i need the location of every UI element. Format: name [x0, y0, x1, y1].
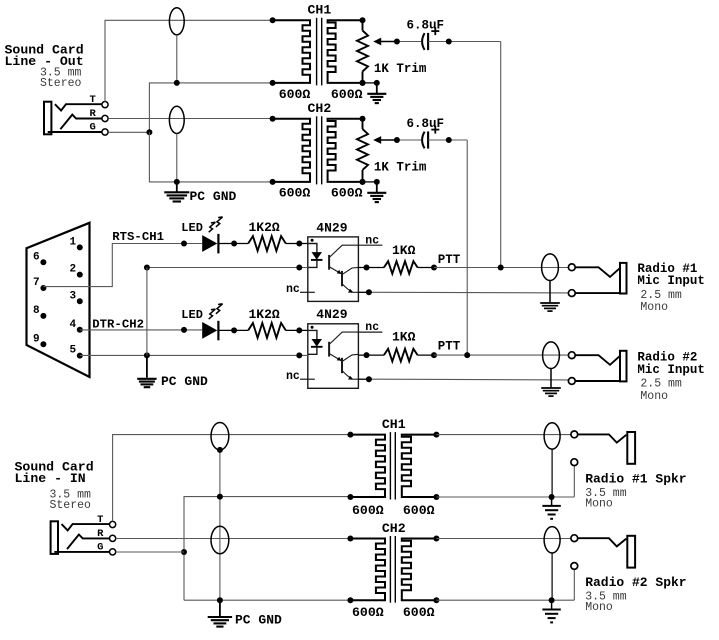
wire: R2 to opto U2 anode — [286, 327, 308, 333]
svg-text:Mono: Mono — [585, 601, 613, 614]
label: Sound Card Line - Out — [5, 43, 84, 91]
wire: ring to CH2 primary top — [108, 118, 272, 120]
wire: CH2-in secondary bottom to radio2 spkr sleeve — [436, 570, 574, 603]
label CH1 (in) — [382, 417, 406, 432]
wire: R4 to PTT2 node and radio 2 tip — [418, 352, 570, 358]
node: TCH2in terminals — [347, 536, 439, 604]
opto U2 base stub (nc) — [300, 378, 315, 380]
label CH2 (in) — [382, 521, 406, 536]
svg-text:CH1: CH1 — [308, 3, 332, 18]
svg-text:LED: LED — [181, 308, 203, 322]
DB9 pin 6 — [33, 251, 46, 265]
DB9 pin 1 — [70, 237, 83, 251]
wire: C2 to PTT2 drop — [428, 137, 467, 355]
opto-coupler U2 4N29 package outline — [308, 324, 359, 389]
wire: D2 to R2 — [218, 327, 248, 333]
svg-text:6: 6 — [33, 251, 40, 263]
label 600ohm CH2-in left — [352, 605, 384, 620]
wire: return bus down to CH2 primary bottom — [149, 132, 272, 185]
resistor R4 1K — [384, 349, 418, 362]
svg-text:PTT: PTT — [438, 253, 461, 267]
jack sleeve contact (G) — [54, 551, 109, 553]
wire: CH2 cable shield drain — [176, 134, 178, 182]
label PC GND (middle) — [161, 374, 208, 389]
opto U1 photo-darlington transistor — [329, 245, 358, 293]
svg-text:4N29: 4N29 — [316, 307, 347, 322]
svg-text:6.8uF: 6.8uF — [407, 18, 445, 32]
capacitor C2 6.8uF — [422, 126, 439, 149]
svg-text:1: 1 — [70, 237, 77, 249]
transformer TCH1out secondary winding 600 ohm — [328, 20, 363, 83]
svg-text:7: 7 — [33, 277, 40, 289]
wire: U1 emitter out to R3 — [358, 265, 384, 271]
svg-text:8: 8 — [33, 305, 40, 317]
opto U2 photo-darlington transistor — [329, 332, 358, 380]
label 6.8uF C1 — [407, 18, 445, 32]
cable ellipse CH2 in — [211, 526, 229, 553]
svg-text:Radio #2 Spkr: Radio #2 Spkr — [585, 575, 686, 590]
labels T R G — [97, 514, 104, 553]
svg-text:600Ω: 600Ω — [331, 87, 363, 102]
cable ellipse CH1 in — [211, 423, 229, 450]
ground: PC GND serial — [137, 355, 156, 387]
wire: sleeve G to return bus — [116, 551, 184, 553]
label 600ohm CH2-in right — [403, 605, 435, 620]
svg-text:PTT: PTT — [438, 340, 461, 354]
wire: pin5 and opto U2 cathode to PC GND bus — [80, 352, 308, 358]
resistor R2 1K2 — [248, 323, 286, 338]
3.5mm stereo jack body (Line-Out) — [44, 102, 51, 135]
transformer TCH2in core — [390, 536, 395, 603]
cable ellipse radio1 spkr — [544, 423, 560, 449]
svg-text:1K2Ω: 1K2Ω — [249, 307, 280, 322]
svg-text:9: 9 — [33, 333, 40, 345]
label 1K Trim CH2 — [374, 160, 427, 174]
opto U1 internal LED — [308, 244, 323, 268]
wire: DTR pin4 to LED D2 — [80, 327, 202, 333]
svg-text:T: T — [97, 514, 103, 526]
wire: cable shield drain to return bus — [176, 35, 178, 83]
jack terminals T R G — [102, 102, 108, 136]
svg-text:Line - IN: Line - IN — [15, 471, 86, 486]
3.5mm mono plug/jack for Radio #2 speaker — [571, 535, 635, 570]
svg-text:4: 4 — [70, 319, 77, 331]
label nc U1 collector — [358, 234, 382, 247]
wire: tip to CH1 primary top — [105, 20, 273, 101]
wire: U1 bottom emitter to radio1 sleeve — [358, 289, 569, 295]
label PC GND (bottom) — [235, 613, 282, 628]
svg-text:Mono: Mono — [585, 497, 613, 510]
label Radio #2 Mic Input — [637, 351, 705, 403]
label PTT (1) — [438, 253, 461, 267]
node: TCH1in terminals — [347, 432, 439, 500]
svg-text:6.8uF: 6.8uF — [407, 117, 445, 131]
label Radio #1 Spkr — [585, 471, 686, 510]
label nc U2 collector — [358, 321, 382, 334]
svg-text:2.5 mm: 2.5 mm — [640, 289, 682, 302]
label 1Kohm R4 — [392, 330, 416, 345]
wire: shield bus vertical — [217, 447, 223, 600]
label 600ohm CH1-in right — [403, 503, 435, 518]
wire: PC GND bus vertical (serial) — [146, 268, 148, 356]
DB9 pin 8 — [33, 305, 46, 319]
LED D1 — [202, 217, 222, 254]
svg-text:1KΩ: 1KΩ — [392, 330, 416, 345]
svg-text:G: G — [90, 122, 96, 134]
wire: U2 emitter out to R4 — [358, 352, 384, 358]
jack tip contact (T) — [62, 524, 110, 530]
transformer TCH2out primary winding 600 ohm — [273, 119, 310, 182]
label Radio #1 Mic Input — [637, 262, 705, 314]
cable ellipse CH1 out — [169, 8, 184, 35]
jack ring contact (R) — [60, 115, 102, 130]
transformer TCH2out secondary winding 600 ohm — [328, 119, 363, 182]
DB9 serial connector J1 — [27, 223, 90, 377]
transformer TCH2out core — [317, 116, 322, 184]
transformer TCH1in core — [390, 432, 395, 499]
svg-text:R: R — [97, 528, 104, 540]
node: TCH2out terminals — [270, 116, 366, 185]
svg-text:600Ω: 600Ω — [403, 605, 435, 620]
ground: spkr2 shield — [542, 600, 560, 622]
svg-text:1KΩ: 1KΩ — [392, 243, 416, 258]
wire: sleeve G to return bus — [108, 129, 152, 135]
ground: CH1 trim bottom — [360, 80, 387, 103]
label 4N29 U2 — [316, 307, 347, 322]
wire: R3 to PTT1 node and radio 1 tip — [418, 265, 570, 271]
2.5mm mono plug/jack for Radio #2 mic — [568, 351, 626, 385]
resistor R1 1K2 — [248, 236, 286, 251]
label 1Kohm R3 — [392, 243, 416, 258]
svg-text:nc: nc — [286, 283, 300, 296]
svg-text:PC GND: PC GND — [161, 374, 208, 389]
LED D2 — [202, 304, 222, 341]
svg-text:R: R — [90, 108, 97, 120]
label PC GND (top) — [190, 189, 237, 204]
svg-text:2.5 mm: 2.5 mm — [640, 378, 682, 391]
label LED D2 — [181, 308, 203, 322]
labels T R G — [90, 94, 97, 133]
wire: CH1-in secondary top to radio1 spkr tip — [436, 434, 570, 436]
svg-text:4N29: 4N29 — [316, 220, 347, 235]
svg-text:RTS-CH1: RTS-CH1 — [112, 230, 164, 244]
wire: return bus to CH1 primary bottom — [149, 80, 272, 132]
opto U1 base stub (nc) — [300, 291, 315, 293]
wire: spkr2 cable shield — [551, 553, 553, 600]
label 1K2ohm R1 — [249, 220, 280, 235]
svg-text:CH2: CH2 — [382, 521, 406, 536]
transformer TCH1out core — [317, 18, 322, 86]
cable ellipse CH2 out — [169, 106, 184, 133]
svg-text:LED: LED — [181, 221, 203, 235]
wire wiper to cap CH2 — [394, 137, 421, 143]
svg-text:Stereo: Stereo — [40, 77, 82, 90]
label CH1 — [308, 3, 332, 18]
svg-text:2: 2 — [70, 264, 77, 276]
ground: CH2 trim bottom — [360, 179, 387, 202]
capacitor C1 6.8uF — [422, 27, 439, 50]
cable ellipse radio2 spkr — [544, 527, 560, 553]
wire: U2 bottom emitter to radio2 sleeve — [358, 376, 569, 382]
svg-text:5: 5 — [70, 345, 77, 357]
wire wiper to cap CH1 — [394, 39, 421, 45]
label DTR-CH2 — [92, 318, 144, 332]
3.5mm mono plug/jack for Radio #1 speaker — [571, 431, 635, 466]
cable ellipse radio1 mic — [542, 254, 559, 281]
ground: radio2 mic cable shield — [541, 369, 561, 397]
svg-text:CH1: CH1 — [382, 417, 406, 432]
svg-text:PC GND: PC GND — [190, 189, 237, 204]
svg-text:1K Trim: 1K Trim — [374, 62, 427, 76]
svg-text:3: 3 — [70, 290, 77, 302]
wire: R1 to opto U1 anode — [286, 241, 308, 247]
ground: spkr1 shield — [542, 497, 560, 519]
wire: tip to CH1-in primary top — [113, 435, 351, 522]
label: Sound Card Line - IN — [15, 460, 94, 513]
wire: RTS pin7 to LED D1 — [43, 241, 202, 287]
cable ellipse radio2 mic — [543, 342, 560, 369]
transformer TCH2in secondary winding 600 ohm — [402, 539, 437, 601]
jack terminals T R G — [110, 521, 116, 555]
svg-text:Mic Input: Mic Input — [637, 274, 705, 288]
label 600ohm primary CH2 — [279, 186, 311, 201]
DB9 pin 3 — [70, 290, 83, 304]
label RTS-CH1 — [112, 230, 164, 244]
trimmer R: 1K Trim CH2 — [357, 119, 397, 182]
wire: CH1-in secondary bottom to radio1 spkr sleeve — [436, 466, 574, 500]
jack sleeve contact (G) — [48, 131, 102, 133]
DB9 pin 4 — [70, 319, 83, 333]
transformer TCH2in primary winding 600 ohm — [350, 539, 385, 601]
svg-text:600Ω: 600Ω — [331, 186, 363, 201]
svg-text:CH2: CH2 — [308, 101, 332, 116]
svg-text:600Ω: 600Ω — [352, 605, 384, 620]
svg-text:Radio #1 Spkr: Radio #1 Spkr — [585, 471, 686, 486]
svg-text:600Ω: 600Ω — [279, 186, 311, 201]
DB9 pin 5 — [70, 345, 83, 359]
svg-text:1K Trim: 1K Trim — [374, 160, 427, 174]
wire: opto U1 cathode to PC GND bus — [144, 265, 308, 271]
wire: return to CH1-in bottom — [181, 494, 350, 601]
wire: bottom return to CH2-in bottom — [184, 597, 350, 603]
label PTT (2) — [438, 340, 461, 354]
svg-text:Stereo: Stereo — [50, 499, 92, 512]
label 600ohm CH1-in left — [352, 503, 384, 518]
transformer TCH1out primary winding 600 ohm — [273, 20, 310, 83]
label 1K Trim — [374, 62, 427, 76]
ground: PC GND line-in — [208, 600, 232, 626]
wire: C1 to PTT1 drop — [428, 39, 501, 268]
resistor R3 1K — [384, 261, 418, 274]
node: TCH1out terminals — [270, 17, 366, 86]
svg-text:Mono: Mono — [640, 301, 668, 314]
3.5mm stereo jack body (Line-In) — [51, 521, 58, 554]
svg-text:600Ω: 600Ω — [279, 87, 311, 102]
wire: D1 to R1 — [218, 241, 248, 247]
label LED D1 — [181, 221, 203, 235]
opto-coupler U1 4N29 package outline — [308, 237, 359, 302]
label 600ohm secondary CH2 — [331, 186, 363, 201]
jack tip contact (T) — [55, 104, 102, 110]
DB9 pin 2 — [70, 264, 83, 278]
label 4N29 U1 — [316, 220, 347, 235]
svg-text:G: G — [97, 541, 103, 553]
ground: radio1 mic cable shield — [540, 281, 560, 312]
svg-text:Mono: Mono — [640, 390, 668, 403]
opto U2 internal LED — [308, 330, 323, 354]
transformer TCH1in secondary winding 600 ohm — [402, 435, 437, 497]
label 6.8uF C2 — [407, 117, 445, 131]
label 600ohm primary CH1 — [279, 87, 311, 102]
DB9 pin 7 — [33, 277, 46, 291]
svg-text:Mic Input: Mic Input — [637, 363, 705, 377]
label nc U2 base — [286, 370, 300, 383]
wire: spkr1 cable shield — [551, 449, 553, 497]
svg-text:nc: nc — [286, 370, 300, 383]
svg-text:PC GND: PC GND — [235, 613, 282, 628]
svg-text:DTR-CH2: DTR-CH2 — [92, 318, 144, 332]
transformer TCH1in primary winding 600 ohm — [350, 435, 385, 497]
wire: ring to CH2-in primary top — [116, 538, 351, 540]
label Radio #2 Spkr — [585, 575, 686, 614]
label 1K2ohm R2 — [249, 307, 280, 322]
svg-text:1K2Ω: 1K2Ω — [249, 220, 280, 235]
svg-text:600Ω: 600Ω — [403, 503, 435, 518]
svg-text:600Ω: 600Ω — [352, 503, 384, 518]
2.5mm mono plug/jack for Radio #1 mic — [568, 263, 626, 297]
DB9 pin 9 — [33, 333, 46, 347]
ground: PC GND line-out shield bus — [164, 182, 189, 202]
wire: CH2-in secondary top to radio2 spkr tip — [436, 538, 570, 540]
label 600ohm secondary CH1 — [331, 87, 363, 102]
trimmer R: 1K Trim CH1 — [357, 20, 397, 83]
svg-text:T: T — [90, 94, 96, 106]
jack ring contact (R) — [67, 535, 110, 550]
label nc U1 base — [286, 283, 300, 296]
label CH2 — [308, 101, 332, 116]
